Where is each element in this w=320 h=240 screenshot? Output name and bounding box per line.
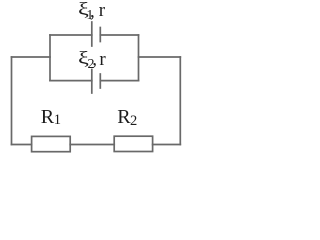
wire right vertical [179,57,181,145]
wire bottom branch right [100,80,138,82]
wire top branch right [100,34,138,36]
wire bottom middle [70,144,114,146]
label emf 1 [78,0,89,20]
wire box right edge [138,35,140,81]
battery U1 short plate [99,28,101,42]
wire bottom left [12,144,32,146]
label R2 [117,106,130,129]
wire box left edge [49,35,51,81]
label emf 2 [78,49,89,69]
wire bottom branch left [50,80,92,82]
label R1 [41,106,54,129]
wire bottom right [153,144,181,146]
wire right tap [139,56,181,58]
battery U2 long plate [91,70,93,94]
resistor R2 [114,136,152,151]
resistor R1 [32,136,71,151]
wire left tap [12,56,51,58]
wire left vertical [11,57,13,145]
battery U2 short plate [99,74,101,88]
wire top branch left [50,34,92,36]
battery U1 long plate [91,22,93,46]
